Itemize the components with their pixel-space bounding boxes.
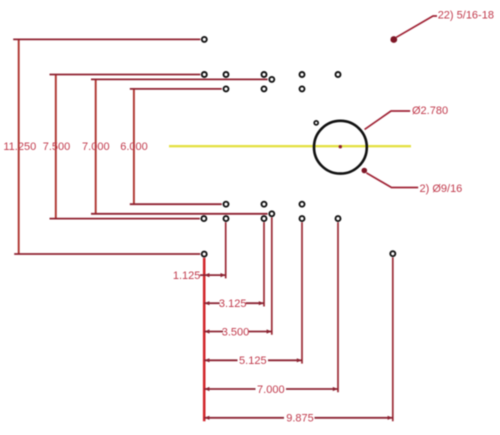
hole B6 [224, 216, 229, 221]
hole B8 [300, 216, 305, 221]
hole A8 [224, 86, 229, 91]
dimension 9.875 horizontal left segment [204, 417, 284, 419]
leader for tapped holes label [396, 16, 437, 37]
yellow centerline [169, 145, 411, 147]
svg-text:7.000: 7.000 [257, 384, 285, 396]
dimension 3.500 horizontal left segment [204, 331, 223, 333]
hole B1 [224, 202, 229, 207]
hole A3 [224, 72, 229, 77]
hole small near bore [314, 121, 318, 125]
hole A5 [300, 72, 305, 77]
dimension 5.125 horizontal left segment [204, 359, 237, 361]
extension line from hole B9 down to 7.000 [337, 222, 339, 392]
dimension line 6.000 bottom horizontal to hole B1 [130, 203, 222, 205]
hole B9 [336, 216, 341, 221]
dimension 7.000 horizontal right segment [286, 388, 338, 390]
svg-text:2) Ø9/16: 2) Ø9/16 [420, 183, 463, 195]
dimension 3.500 horizontal right segment [248, 331, 272, 333]
svg-text:3.125: 3.125 [219, 298, 247, 310]
hole A7 [269, 77, 274, 82]
svg-text:11.250: 11.250 [3, 141, 36, 153]
bore circle [314, 121, 367, 174]
svg-text:Ø2.780: Ø2.780 [412, 105, 448, 117]
hole B3 [300, 202, 305, 207]
extension line from hole B6 down to 1.125 [225, 222, 227, 278]
extension line from hole B12 down to 9.875 [392, 257, 394, 421]
hole B2 [262, 202, 267, 207]
svg-text:6.000: 6.000 [120, 141, 148, 153]
dimension line 7.500 top horizontal to hole A2 [50, 74, 201, 76]
dimension line 6.000 vertical [133, 89, 135, 204]
dimension line 6.000 top horizontal to hole A8 [130, 88, 222, 90]
dimension line 11.250 top horizontal to hole A1 [13, 38, 200, 40]
dimension line 7.500 bottom horizontal to hole B5 [50, 218, 200, 220]
hole B7 [262, 216, 267, 221]
dimension 3.125 horizontal right segment [246, 302, 264, 304]
dimension 7.000 horizontal left segment [204, 388, 255, 390]
hole A9 [262, 86, 267, 91]
svg-text:7.500: 7.500 [43, 141, 71, 153]
svg-text:7.000: 7.000 [82, 141, 110, 153]
hole B12 [390, 251, 395, 256]
dimension line 7.000 bottom horizontal to hole B4 [91, 213, 268, 215]
extension line from hole B8 down to 5.125 [301, 222, 303, 363]
extension line from hole B4 down to 3.500 [271, 217, 273, 334]
dimension 3.125 horizontal left segment [204, 302, 220, 304]
extension line from hole B7 down to 3.125 [263, 222, 265, 306]
bore center dot [339, 145, 342, 148]
hole A1 [202, 37, 207, 42]
hole A4 [262, 72, 267, 77]
leader for small dia label [366, 173, 418, 188]
hole B4 [269, 211, 274, 216]
hole A6 [336, 72, 341, 77]
dimension line 11.250 vertical [18, 39, 20, 254]
dimension line 7.000 vertical [95, 79, 97, 213]
dimension 5.125 horizontal right segment [268, 359, 302, 361]
hole A2 [202, 72, 207, 77]
leader for bore label [365, 111, 411, 129]
red hole marker small (2) dia) [362, 168, 368, 174]
dimension line 11.250 bottom horizontal to hole B11 [14, 253, 200, 255]
main baseline vertical extension from hole B11 [203, 258, 206, 421]
dimension 1.125 horizontal [200, 274, 226, 276]
hole B5 [201, 216, 206, 221]
svg-text:5.125: 5.125 [239, 355, 267, 367]
dimension line 7.500 vertical [55, 75, 57, 219]
svg-text:9.875: 9.875 [286, 413, 314, 425]
dimension line 7.000 top horizontal to hole A7 [91, 78, 268, 80]
red hole marker top right tapped [390, 36, 397, 43]
dimension 9.875 horizontal right segment [315, 417, 393, 419]
svg-text:1.125: 1.125 [173, 270, 201, 282]
hole A10 [300, 86, 305, 91]
svg-text:22) 5/16-18: 22) 5/16-18 [438, 10, 494, 22]
hole B11 [202, 252, 207, 257]
svg-text:3.500: 3.500 [222, 326, 250, 338]
